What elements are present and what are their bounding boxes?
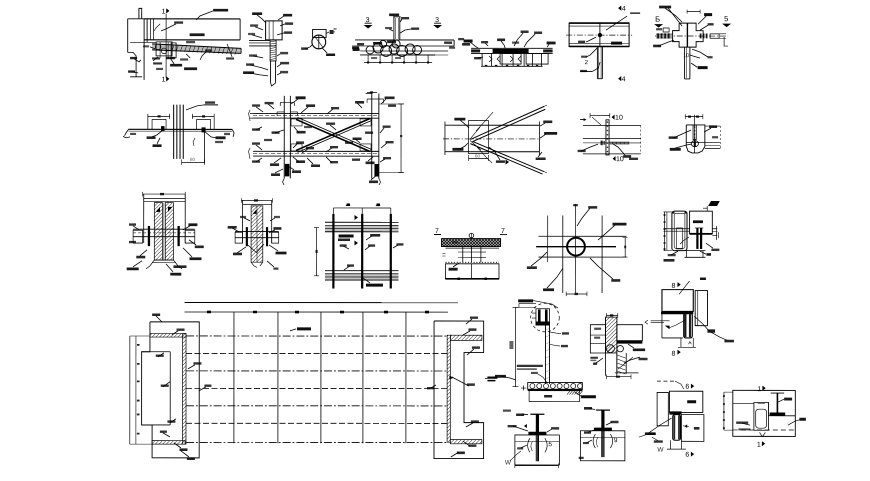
- svg-text:8: 8: [671, 351, 675, 358]
- svg-text:6: 6: [685, 384, 689, 391]
- svg-text:4: 4: [622, 76, 626, 83]
- svg-text:7: 7: [501, 228, 505, 235]
- svg-text:60: 60: [475, 154, 481, 159]
- svg-text:W: W: [505, 460, 512, 467]
- svg-text:10: 10: [616, 156, 624, 163]
- svg-text:5: 5: [548, 441, 552, 448]
- svg-text:9: 9: [614, 437, 618, 444]
- svg-text:10: 10: [683, 53, 689, 59]
- svg-text:W: W: [657, 447, 664, 454]
- svg-text:1: 1: [757, 386, 761, 393]
- svg-text:8: 8: [671, 283, 675, 290]
- svg-text:1: 1: [757, 442, 761, 449]
- svg-text:1: 1: [162, 76, 166, 83]
- svg-text:5: 5: [724, 14, 728, 23]
- svg-text:Б: Б: [655, 15, 660, 24]
- svg-text:10: 10: [615, 115, 623, 122]
- svg-text:4: 4: [622, 6, 626, 13]
- svg-text:6: 6: [685, 452, 689, 459]
- svg-text:80: 80: [190, 157, 196, 162]
- svg-text:1: 1: [162, 8, 166, 15]
- svg-text:7: 7: [435, 228, 439, 235]
